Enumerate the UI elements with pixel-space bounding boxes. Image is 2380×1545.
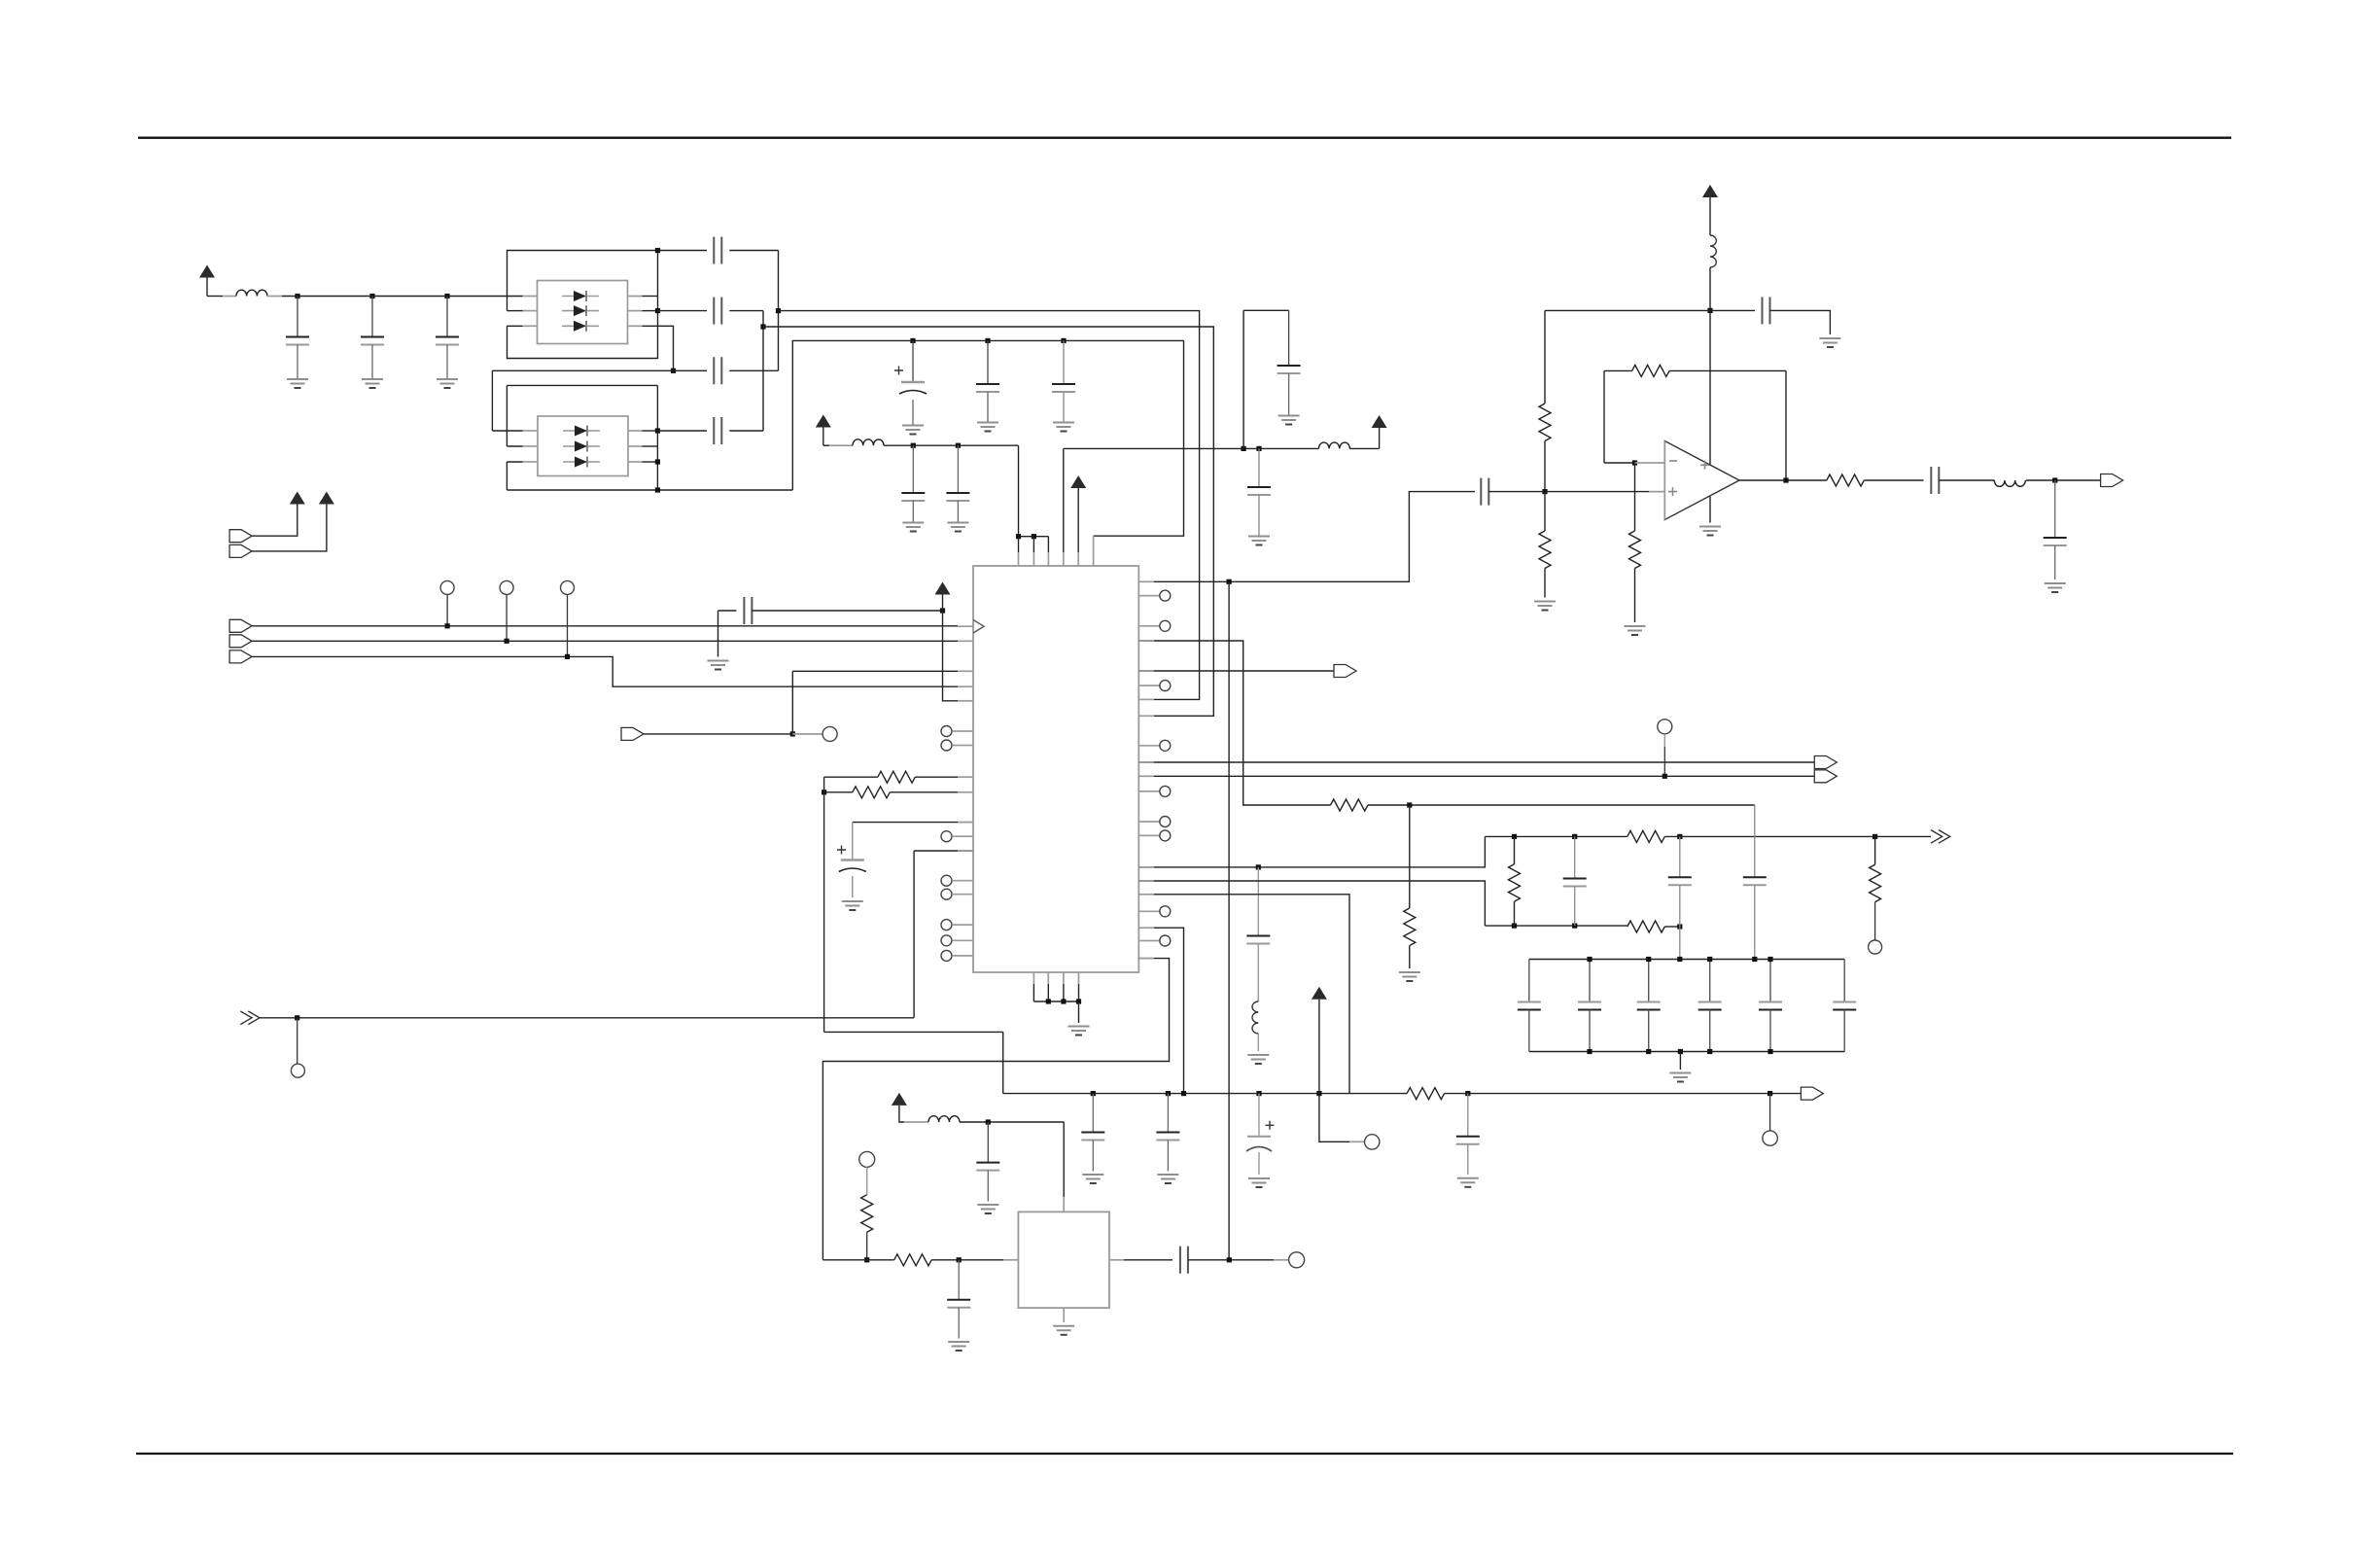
wire D2 outer loop top: [507, 384, 657, 386]
junction bank top: [1707, 957, 1712, 962]
connector J13 (bottom output): [1801, 1087, 1823, 1100]
wire P5 stem: [1709, 197, 1711, 235]
no-connect pin circle L8: [941, 950, 952, 961]
wire R2 to ground: [1544, 569, 1546, 598]
wire IC right NC stub 9: [1138, 940, 1160, 942]
capacitor C7 (coupling): [714, 417, 721, 444]
wire clock line gray tail: [958, 625, 973, 627]
wire IC left pin tail gray y814.8: [958, 791, 973, 793]
wire R12 lower: [1514, 901, 1516, 926]
wire C23 upper lead: [1679, 836, 1681, 877]
wire R16 to box: [931, 1259, 1003, 1261]
wire cap C10 lead: [1063, 340, 1065, 384]
wire D1 pin6 lead: [643, 296, 658, 298]
wire D2 outer loop left upper: [506, 385, 507, 446]
wire cap C1 upper lead: [297, 297, 298, 337]
wire P3 stem: [1077, 488, 1079, 552]
junction RF row / riser: [1242, 446, 1246, 451]
wire C34 lower lead: [1467, 1144, 1469, 1175]
capacitor C23 (filter): [1668, 877, 1692, 885]
junction filter bot a: [1512, 924, 1517, 929]
test point circle T10: [859, 1151, 875, 1167]
wire rail row 1061: [824, 1031, 1003, 1033]
capacitor C6 (coupling): [714, 357, 721, 384]
test point circle T11: [1289, 1252, 1305, 1268]
wire R4 to ground: [1634, 569, 1636, 623]
resistor R8: [1331, 799, 1369, 811]
wire C32 lead: [1167, 1094, 1169, 1133]
wire C24 upper lead: [1754, 805, 1756, 877]
wire T11 stub gray: [1274, 1259, 1289, 1261]
IC U2 body: [973, 566, 1138, 972]
wire IC pin4 riser: [1063, 448, 1065, 552]
op-amp U1 body: [1664, 441, 1739, 520]
resistor R15 (osc bias): [861, 1195, 873, 1233]
connector J7: [621, 727, 644, 740]
wire latch line jog: [252, 656, 958, 686]
connector J1 (RF output): [2101, 474, 2123, 487]
diode D1b: [562, 305, 599, 316]
power arrow P5 (op-amp supply): [1702, 185, 1718, 197]
no-connect pin circle R9: [1160, 935, 1171, 946]
junction bot row c1: [1091, 1091, 1096, 1096]
wire IC right pin tail gray y598.3: [1138, 580, 1154, 582]
junction T3/latch: [565, 654, 570, 659]
resistor R4 (to -input gnd): [1629, 531, 1641, 569]
capacitor C20 electrolytic plus sign: [837, 846, 846, 855]
wire pin row 920: [1138, 895, 1349, 1094]
wire C19 row left: [718, 610, 737, 612]
wire C33 lower lead: [1258, 1152, 1260, 1175]
ground below C12: [947, 523, 968, 532]
wire IC left NC stub 7: [953, 939, 973, 941]
wire feedback left riser: [1603, 370, 1605, 463]
wire C36 lower lead: [958, 1308, 960, 1339]
resistor R13 (termination): [1870, 864, 1881, 902]
wire pin row 690 out: [1138, 670, 1334, 672]
wire C23 lower lead: [1679, 885, 1681, 959]
junction IC top pin1: [1016, 534, 1021, 539]
wire C37 to junction: [1188, 1259, 1274, 1261]
wire R6 corner lead: [824, 776, 878, 778]
wire filter top row: [1485, 835, 1627, 837]
capacitor C11: [901, 493, 925, 501]
wire cap C12 lead: [957, 445, 959, 493]
monitor circle T6: [1658, 720, 1672, 734]
inductor L3: [1318, 442, 1349, 448]
junction filter top c: [1677, 834, 1682, 839]
wire R7 to IC: [890, 791, 973, 793]
inductor L2: [853, 439, 884, 445]
capacitor C26 (bank): [1578, 1002, 1601, 1010]
wire D1 pin3 lead: [507, 325, 523, 327]
wire filter top row b: [1664, 835, 1874, 837]
wire D2 pin6 lead gray: [628, 430, 643, 432]
junction IC gnd jumper a: [1046, 999, 1051, 1003]
wire bank cap 4 lower lead: [1709, 1010, 1711, 1052]
wire L7 lead gray: [904, 1121, 928, 1123]
capacitor C20 electrolytic plates: [841, 859, 864, 860]
wire R13 to circle: [1874, 902, 1876, 940]
wire P1 to inductor: [207, 296, 223, 298]
capacitor C8 electrolytic plus sign: [894, 367, 903, 375]
junction V+ rail c2: [956, 443, 961, 448]
no-connect pin circle R7: [1160, 830, 1171, 841]
wire C4 left lead: [658, 250, 708, 252]
capacitor C15 (V+ bypass): [1763, 297, 1770, 324]
wire P8 stem: [942, 595, 944, 612]
wire R3 to fb corner: [1669, 369, 1786, 371]
wire IC right pin tail gray y906: [1138, 880, 1154, 882]
junction bank gnd tap: [1678, 1049, 1683, 1054]
wire D1 outer loop: [507, 251, 658, 359]
wire C20 upper lead: [852, 823, 854, 860]
wire L2 lead gray: [829, 444, 853, 446]
junction bot out cap: [1465, 1091, 1470, 1096]
inductor L1: [236, 290, 267, 296]
no-connect pin circle L4: [941, 875, 952, 886]
no-connect pin circle R1: [1160, 590, 1171, 601]
wire pin row 986: [822, 959, 1169, 1260]
capacitor C33 electrolytic plus sign: [1266, 1121, 1275, 1130]
wire C36 lead: [958, 1260, 960, 1300]
wire C15 right lead: [1770, 310, 1831, 334]
diode D2c: [563, 457, 600, 468]
wire R7 lead: [824, 791, 853, 793]
capacitor C24 (series): [1743, 877, 1767, 885]
power arrow P4: [1372, 415, 1387, 428]
wire bank cap 5 upper lead: [1769, 960, 1771, 1002]
wire cap C9 lead: [987, 340, 989, 384]
wire C7 right lead: [729, 430, 763, 432]
junction loop row cap1: [910, 338, 915, 343]
capacitor C14: [1247, 487, 1271, 495]
no-connect pin circle R3: [1160, 681, 1171, 691]
resistor R11 (filter bottom): [1627, 921, 1665, 932]
wire C31 lower lead: [1092, 1141, 1094, 1172]
wire C22 lower lead: [1574, 887, 1576, 927]
wire R15 to row: [866, 1232, 868, 1260]
junction D1 mid-right: [655, 308, 660, 313]
power arrow P8: [935, 582, 951, 595]
wire pin row 798: [1138, 775, 1814, 777]
junction D2 bottom node: [655, 487, 660, 492]
wire IC top pin4 stub gray: [1063, 552, 1065, 566]
junction bot out circle: [1767, 1091, 1772, 1096]
junction R7 rail: [822, 790, 826, 794]
wire IC top pin3 stub gray: [1047, 552, 1049, 566]
wire data line gray tail: [958, 640, 973, 642]
wire IC right NC stub 6: [1138, 821, 1160, 823]
wire R14 to arrow: [1445, 1093, 1802, 1095]
resistor R1 (divider top): [1539, 404, 1551, 440]
ground IC bottom: [1068, 1027, 1090, 1036]
wire P3 stub gray: [1077, 552, 1079, 566]
ground below C10: [1053, 423, 1074, 432]
capacitor C34: [1456, 1137, 1480, 1144]
wire IC left NC stub 8: [953, 955, 973, 957]
wire IC bottom pin drop 1: [1032, 984, 1034, 1001]
capacitor C29 (bank): [1759, 1002, 1782, 1010]
junction chevron tap: [295, 1015, 299, 1020]
wire IC bottom pin stub 4 gray: [1078, 972, 1080, 984]
wire D2 bottom line: [507, 489, 792, 491]
no-connect pin circle L5: [941, 889, 952, 899]
wire T10 stub gray: [866, 1167, 868, 1194]
wire IC left pin tail gray y845.6: [958, 822, 973, 824]
wire pin row 690: [792, 670, 958, 672]
diode D2b: [563, 441, 600, 452]
junction bank bottom: [1707, 1049, 1712, 1054]
wire IC right pin tail gray y891.9: [1138, 866, 1154, 868]
wire IC left NC stub 2: [953, 745, 973, 747]
wire P2 corner: [823, 444, 829, 446]
power arrow P7: [319, 492, 334, 505]
wire osc row left: [822, 1259, 893, 1261]
junction bot row c2: [1166, 1091, 1171, 1096]
wire left rail upper: [823, 777, 825, 1032]
wire cap C1 lower lead: [297, 345, 298, 379]
wire IC left NC stub 3: [953, 835, 973, 837]
wire chain mid lead: [1257, 944, 1259, 1002]
wire D2 pin1 lead: [492, 430, 522, 432]
wire D2 pin5 lead: [643, 445, 658, 447]
wire chain cap lead: [1257, 867, 1259, 936]
ground below C20: [842, 901, 863, 910]
wire cap C3 lower lead: [446, 345, 448, 379]
wire row319 right segment: [1545, 309, 1710, 311]
junction loop row cap2: [985, 338, 990, 343]
junction supply rail 3: [444, 294, 449, 298]
junction IC top pin2: [1032, 534, 1036, 539]
connector J11: [1814, 770, 1837, 783]
wire T4 stub gray: [792, 733, 822, 735]
wire C19 gnd riser: [717, 611, 719, 657]
junction V+ node IC left: [940, 608, 945, 613]
diode array D2 package: [538, 416, 628, 476]
no-connect pin circle L1: [941, 726, 952, 737]
wire D2 pin4 lead gray: [628, 461, 643, 463]
wire cap C14 lead: [1258, 448, 1260, 487]
wire pin row 892: [1138, 836, 1485, 867]
wire IC right NC stub 5: [1138, 790, 1160, 792]
wire R13 riser: [1874, 836, 1876, 864]
wire L4 to junction: [1709, 267, 1711, 310]
wire C11 lower lead: [912, 501, 914, 522]
capacitor C30 (bank): [1833, 1002, 1856, 1010]
junction supply rail 1: [295, 294, 299, 298]
no-connect pin circle R5: [1160, 786, 1171, 796]
wire D1 pin2 lead: [507, 310, 523, 312]
junction osc row cap: [957, 1257, 962, 1262]
wire C19 to V+ node: [752, 610, 942, 612]
wire data line: [252, 640, 958, 642]
capacitor C9: [976, 384, 999, 392]
ground below C35: [977, 1205, 998, 1213]
wire cap bank bottom row: [1529, 1051, 1844, 1053]
resistor R7: [853, 787, 891, 798]
power arrow P1 (supply input): [199, 265, 215, 278]
wire bank cap 2 lower lead: [1589, 1010, 1591, 1052]
inductor L7: [928, 1116, 960, 1122]
op-amp U1 supply plus label: [1700, 461, 1709, 470]
ground below R2: [1534, 602, 1556, 611]
wire D2 outer loop left lower: [506, 462, 507, 490]
no-connect pin circle L3: [941, 831, 952, 842]
wire C18 lower lead: [2054, 545, 2056, 579]
ground below C18: [2045, 583, 2066, 592]
resistor R5 (output series): [1827, 474, 1865, 486]
wire IC right pin tail gray y919.8: [1138, 894, 1154, 895]
wire cap C11 lead: [912, 445, 914, 493]
no-connect pin circle R2: [1160, 620, 1171, 631]
ground below C19: [708, 661, 729, 670]
wire big loop: [792, 340, 1183, 536]
wire IC top pin1 stub gray: [1018, 552, 1020, 566]
connector J3: [229, 544, 252, 557]
junction output node: [2052, 477, 2057, 482]
wire row B IC gray tail: [1138, 715, 1154, 717]
junction filter top d: [1872, 834, 1877, 839]
ground cap bank: [1669, 1073, 1691, 1082]
wire op-amp V- to ground: [1709, 497, 1711, 523]
capacitor C13: [1277, 366, 1301, 373]
wire P9 stem: [1318, 1000, 1320, 1094]
connector J4 (clock): [229, 619, 252, 632]
no-connect pin circle L6: [941, 920, 952, 931]
wire C24 lower lead: [1754, 885, 1756, 959]
ground below C33: [1248, 1178, 1270, 1187]
resistor R2 (divider bottom): [1539, 531, 1551, 569]
power arrow P10: [892, 1093, 907, 1106]
junction filter top b: [1572, 834, 1577, 839]
capacitor C17 (output coupling): [1931, 467, 1939, 494]
wire P10 stem: [899, 1106, 904, 1122]
wire cap column row left: [492, 369, 673, 371]
diode D1a: [562, 291, 599, 301]
wire C35 lower lead: [987, 1171, 989, 1202]
wire D1 pin4 to cap column: [643, 326, 674, 370]
ground below C15: [1819, 338, 1840, 347]
wire C17 to L5: [1939, 479, 1994, 481]
ground below C8: [902, 426, 924, 435]
capacitor C27 (bank): [1637, 1002, 1661, 1010]
wire IC left pin tail gray y875: [958, 850, 973, 852]
wire filter top row c: [1875, 835, 1931, 837]
resistor R10 (filter top): [1627, 830, 1665, 842]
wire T6 stub gray: [1663, 734, 1665, 747]
wire IC out row to cap: [1138, 492, 1475, 582]
wire rail drop 1031: [1002, 1032, 1004, 1093]
wire IC right NC stub 8: [1138, 910, 1160, 912]
wire D2 pin2 lead gray: [523, 445, 539, 447]
wire IC bottom jumper: [1033, 1001, 1078, 1002]
wire D1 pin5 lead: [643, 310, 658, 312]
junction filter top a: [1512, 834, 1517, 839]
junction T2/data: [505, 639, 509, 644]
wire inductor L1 lead right: [267, 296, 282, 298]
wire D2 pin5 lead gray: [628, 445, 643, 447]
wire D2 pin1 lead gray: [523, 430, 539, 432]
wire IC right NC stub 4: [1138, 745, 1160, 747]
wire IC top pin3 stub: [1047, 537, 1049, 552]
wire chain gnd lead: [1257, 1034, 1259, 1051]
wire pin row 845 lead: [853, 822, 973, 824]
ground below C2: [362, 379, 383, 388]
junction V+ rail c1: [911, 443, 916, 448]
wire node to R2: [1544, 492, 1546, 531]
wire IC right pin tail gray y659: [1138, 640, 1154, 642]
wire J2 to arrow: [252, 505, 297, 537]
wire row A to IC pin: [779, 311, 1200, 700]
wire pin row 875 lead: [914, 850, 973, 852]
wire IC bottom pin stub 3 gray: [1063, 972, 1065, 984]
bottom border rule: [136, 1453, 2233, 1455]
junction row 892 chain: [1256, 864, 1261, 869]
wire C6 right lead: [729, 369, 778, 371]
test point circle T9: [1763, 1131, 1777, 1145]
resistor R9 (to ground): [1404, 908, 1416, 946]
crystal oscillator X1 body: [1018, 1211, 1109, 1308]
wire R6 to IC: [915, 776, 973, 778]
ground below R9: [1399, 972, 1420, 981]
wire IC top pin2 stub gray: [1032, 552, 1034, 566]
ground below X1: [1053, 1326, 1074, 1335]
test point circle T2: [500, 580, 513, 594]
wire V+ node drop to pin: [943, 611, 959, 701]
junction -input node: [1632, 460, 1637, 465]
wire op-amp + gray stub: [1649, 491, 1664, 493]
wire R12 riser: [1514, 836, 1516, 863]
wire C4 riser to row A: [778, 251, 780, 311]
junction bot row feed: [1181, 1091, 1186, 1096]
wire IC left NC stub 5: [953, 894, 973, 895]
wire output shunt cap lead: [2054, 480, 2056, 538]
wire supply rail to diode box: [282, 296, 523, 298]
ground below C31: [1082, 1175, 1103, 1183]
wire bank cap 1 lower lead: [1528, 1010, 1530, 1052]
wire osc in stub gray: [1003, 1259, 1018, 1261]
capacitor C12: [946, 493, 969, 501]
wire IC bottom pin stub 1 gray: [1032, 972, 1034, 984]
wire pin row 721 gray: [958, 700, 973, 702]
wire bank cap 4 upper lead: [1709, 960, 1711, 1002]
capacitor C18 (output shunt): [2044, 538, 2067, 545]
power arrow P9: [1312, 987, 1327, 1000]
wire cap C3 upper lead: [446, 297, 448, 337]
wire IC left NC stub 1: [953, 730, 973, 732]
wire C5/C7 riser: [762, 311, 764, 431]
capacitor C4 (coupling): [714, 237, 721, 264]
wire D2 pin2 lead: [507, 445, 522, 447]
test point circle T5: [291, 1064, 304, 1077]
junction osc out: [1227, 1257, 1232, 1262]
no-connect pin circle R6: [1160, 817, 1171, 827]
capacitor C25 (bank): [1518, 1002, 1541, 1010]
wire bank cap 6 lower lead: [1843, 1010, 1845, 1052]
wire T5 stub: [297, 1018, 298, 1064]
wire -node to R4: [1634, 463, 1636, 531]
junction osc row bias: [864, 1257, 869, 1262]
wire R1 to node: [1544, 441, 1546, 492]
wire osc top pin stub gray: [1063, 1197, 1065, 1211]
wire C5 right lead: [729, 310, 763, 312]
wire bottom out row: [1003, 1093, 1407, 1095]
wire C12 lower lead: [957, 501, 959, 522]
wire P1 stem: [206, 278, 208, 297]
wire D1 pin5 lead gray: [628, 310, 643, 312]
junction bank bottom: [1646, 1049, 1651, 1054]
